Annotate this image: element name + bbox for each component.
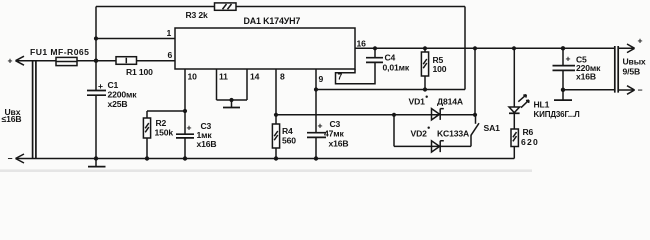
svg-text:R4: R4: [282, 126, 293, 136]
svg-text:FU1 MF-R065: FU1 MF-R065: [30, 47, 89, 57]
LED HL1 chain wire: [513, 48, 515, 107]
wire pin16 output rail: [355, 47, 615, 49]
svg-text:11: 11: [219, 72, 228, 82]
output connector double bars: [615, 46, 618, 93]
capacitor C5: [562, 48, 564, 65]
svg-text:150k: 150k: [155, 128, 174, 138]
svg-text:x25B: x25B: [108, 99, 128, 109]
capacitor C1: [87, 91, 106, 96]
svg-text:620: 620: [521, 137, 539, 147]
svg-text:−: −: [638, 85, 643, 95]
svg-text:2200мк: 2200мк: [108, 90, 138, 100]
node junction pin9/R5 net: [314, 87, 318, 91]
node junction C1 on minus rail: [94, 156, 98, 160]
wire pin8 to zener node: [276, 114, 475, 116]
svg-text:+: +: [318, 121, 323, 131]
wire vertical x96 from top rail to minus rail through C1: [95, 7, 97, 91]
resistor R4: [272, 124, 279, 148]
svg-text:R1 100: R1 100: [126, 67, 153, 77]
svg-text:47мк: 47мк: [324, 129, 344, 139]
resistor R3: [215, 3, 237, 10]
switch SA1: [475, 115, 477, 124]
svg-text:Д814A: Д814A: [437, 96, 463, 106]
wire minus output rail: [563, 89, 615, 91]
resistor R5: [424, 48, 426, 89]
output plus arrow: [619, 44, 635, 53]
node junction pins 11,14: [229, 98, 233, 102]
svg-text:8: 8: [280, 72, 285, 82]
pin 7 wire jog to C4 bottom: [336, 63, 376, 84]
wire VD2 branch drop: [393, 115, 395, 147]
svg-text:x16B: x16B: [329, 139, 349, 149]
wire plus input rail: [16, 60, 176, 62]
wire VD2 branch bottom: [394, 135, 471, 146]
svg-text:9/5B: 9/5B: [623, 66, 641, 76]
svg-text:R6: R6: [523, 127, 534, 137]
svg-text:+: +: [566, 53, 571, 63]
op-amp IC DA1 K174UN7: [175, 28, 355, 69]
capacitor C4: [374, 48, 376, 57]
svg-text:HL1: HL1: [534, 100, 550, 110]
wire minus rail: [16, 158, 515, 160]
resistor R2: [147, 111, 185, 159]
svg-text:+: +: [187, 123, 192, 133]
svg-text:7: 7: [338, 71, 343, 81]
svg-text:VD2: VD2: [411, 128, 428, 138]
wire pin9 to x465: [316, 89, 465, 91]
svg-text:R2: R2: [156, 118, 167, 128]
svg-text:100: 100: [433, 64, 447, 74]
svg-text:6: 6: [168, 50, 173, 60]
node junction R2 on minus rail: [145, 156, 149, 160]
input connector double bars: [33, 61, 36, 159]
svg-text:+: +: [638, 36, 643, 46]
capacitor C3 1mk: [176, 134, 194, 138]
wire vertical x465 from top rail down to pin9 net: [464, 7, 466, 90]
svg-text:x16B: x16B: [576, 71, 596, 81]
svg-text:10: 10: [188, 72, 198, 82]
wire zener top node riser x475: [474, 48, 476, 115]
fuse FU1 MF-R065: [56, 57, 77, 65]
node junction at plus rail: [94, 59, 98, 63]
pin 9 wire down through C3(47mk) to minus rail: [315, 69, 317, 133]
svg-text:Uвыx: Uвыx: [623, 57, 646, 67]
svg-text:+: +: [98, 81, 103, 91]
svg-text:R3 2k: R3 2k: [186, 10, 209, 20]
svg-text:560: 560: [282, 136, 296, 146]
svg-text:+: +: [8, 55, 13, 65]
capacitor C3 47mk: [307, 133, 326, 138]
node junction at pin1 wire: [94, 36, 98, 40]
input plus arrow: [16, 56, 25, 65]
svg-text:VD1: VD1: [409, 96, 426, 106]
svg-text:−: −: [8, 153, 13, 163]
pin 10 wire down through C3(1mk) to minus rail: [184, 69, 186, 134]
svg-text:C3: C3: [330, 119, 341, 129]
wire top rail from node A to right drop: [96, 6, 465, 8]
resistor R6: [513, 113, 515, 129]
node junction pin10 line on minus rail: [183, 156, 187, 160]
node junction pin9 line on minus rail: [314, 156, 318, 160]
pin 11 wire: [216, 69, 218, 100]
LED HL1: [509, 107, 520, 113]
input minus arrow: [16, 154, 25, 163]
zener diode VD1 D814A: [432, 109, 440, 120]
node junction pin10/R2: [183, 109, 187, 113]
svg-text:14: 14: [250, 72, 260, 82]
svg-text:1: 1: [167, 28, 172, 38]
svg-text:C4: C4: [385, 53, 396, 63]
pin 14 wire: [246, 69, 248, 100]
svg-text:C1: C1: [108, 80, 119, 90]
svg-text:≤16B: ≤16B: [2, 114, 22, 124]
svg-text:KC133A: KC133A: [437, 128, 469, 138]
wire pin11-pin14 link: [217, 99, 248, 101]
svg-text:SA1: SA1: [484, 123, 501, 133]
zener diode VD2 KS133A: [432, 141, 440, 152]
output minus arrow: [619, 86, 635, 95]
svg-text:KИПД36Г...Л: KИПД36Г...Л: [534, 110, 581, 119]
node junction R4 on minus rail: [274, 156, 278, 160]
svg-text:x16B: x16B: [197, 139, 217, 149]
wire pin 1: [96, 38, 175, 40]
node junction pin8/zener net: [274, 113, 278, 117]
svg-text:9: 9: [319, 74, 324, 84]
resistor R1: [116, 57, 137, 65]
pin 8 wire: [275, 69, 277, 124]
ground at pins 11,14: [231, 100, 233, 107]
ground at C5: [562, 90, 564, 100]
ground below C1: [95, 159, 97, 167]
svg-text:DA1 K174УH7: DA1 K174УH7: [244, 16, 301, 26]
svg-text:0,01мк: 0,01мк: [383, 62, 410, 72]
svg-text:16: 16: [357, 39, 367, 49]
